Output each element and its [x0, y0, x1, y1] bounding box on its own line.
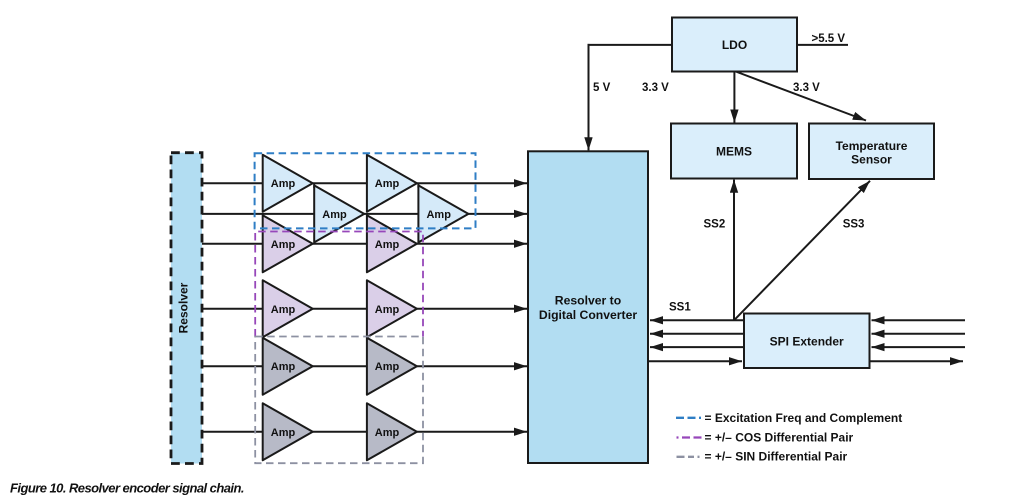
op-amp Amp A8 (purple, row4 col2) [367, 280, 417, 337]
svg-text:3.3 V: 3.3 V [793, 82, 820, 94]
op-amp Amp A5 (purple, row3 col1) [263, 215, 313, 272]
wire: right-side bus line 3 into SPI Extender [872, 346, 966, 348]
svg-text:>5.5 V: >5.5 V [812, 33, 846, 45]
wire: LDO output 5V horizontal to left [588, 44, 673, 46]
svg-text:Amp: Amp [375, 427, 400, 439]
op-amp Amp A12 (gray, row6 col2) [367, 403, 417, 460]
node: >5.5 V label [812, 33, 846, 45]
op-amp Amp A9 (gray, row5 col1) [263, 338, 313, 395]
MEMS block [671, 124, 797, 179]
svg-text:= +/– SIN Differential Pair: = +/– SIN Differential Pair [705, 450, 848, 464]
node: legend COS text [705, 431, 854, 445]
svg-text:SS2: SS2 [704, 219, 726, 231]
node: 3.3 V label (left) [642, 82, 669, 94]
svg-text:Figure 10. Resolver encoder si: Figure 10. Resolver encoder signal chain… [10, 481, 244, 496]
wire: excitation row 2 segments [202, 213, 527, 215]
wire: SS2 vertical from SPI bus up to MEMS [733, 180, 735, 321]
wire: RDC output into SPI Extender [648, 360, 742, 362]
wire: SPI Extender output to the right [870, 360, 964, 362]
Resolver block [171, 153, 202, 464]
wire: SIN row 5 segments [202, 365, 527, 367]
node: SS2 label [704, 219, 726, 231]
node: excitation freq dashed group box (blue) [255, 153, 476, 228]
svg-text:Temperature: Temperature [836, 139, 908, 153]
node: SS1 label [669, 302, 691, 314]
node: legend blue dashed sample [676, 417, 702, 419]
svg-text:SPI Extender: SPI Extender [770, 334, 844, 348]
svg-text:Amp: Amp [375, 239, 400, 251]
wire: SPI bus line 1 (SS1) into RDC [650, 319, 744, 321]
node: legend SIN text [705, 450, 848, 464]
op-amp Amp A11 (gray, row6 col1) [263, 403, 313, 460]
op-amp Amp A3 (blue, row1 col2) [367, 155, 417, 212]
svg-text:LDO: LDO [722, 38, 747, 52]
wire: right-side bus line 1 into SPI Extender [872, 319, 966, 321]
node: legend gray dashed sample [677, 456, 703, 458]
op-amp Amp A7 (purple, row4 col1) [263, 280, 313, 337]
svg-text:Amp: Amp [322, 209, 347, 221]
wire: SPI bus line 3 into RDC [650, 346, 744, 348]
svg-text:SS1: SS1 [669, 302, 691, 314]
SPI Extender block U2 [744, 314, 870, 369]
svg-text:Amp: Amp [271, 239, 296, 251]
svg-text:5 V: 5 V [593, 82, 611, 94]
svg-text:Digital Converter: Digital Converter [539, 308, 637, 322]
node: 3.3 V label (right) [793, 82, 820, 94]
wire: right-side bus line 2 into SPI Extender [872, 333, 966, 335]
svg-text:Amp: Amp [426, 209, 451, 221]
svg-text:Sensor: Sensor [851, 152, 892, 166]
wire: COS row 3 segments [202, 243, 527, 245]
svg-text:= Excitation Freq and Compleme: = Excitation Freq and Complement [705, 411, 903, 425]
svg-text:Amp: Amp [271, 304, 296, 316]
wire: 5V vertical drop into Resolver to Digital Converter [588, 44, 590, 150]
op-amp Amp A10 (gray, row5 col2) [367, 338, 417, 395]
svg-text:Amp: Amp [375, 178, 400, 190]
svg-text:3.3 V: 3.3 V [642, 82, 669, 94]
node: COS differential pair dashed group box (purple) [255, 232, 423, 337]
LDO block [672, 18, 797, 72]
node: figure caption [10, 481, 244, 496]
node: legend purple dashed sample [677, 436, 703, 438]
wire: 3.3V vertical from LDO to MEMS [733, 71, 735, 123]
svg-text:Amp: Amp [271, 361, 296, 373]
wire: tap from row1 down to amp colB [313, 183, 315, 188]
wire: SIN row 6 segments [202, 431, 527, 433]
wire: COS row 4 segments [202, 308, 527, 310]
op-amp Amp A4 (blue, row2 colD) [418, 185, 468, 242]
svg-text:Amp: Amp [271, 178, 296, 190]
op-amp Amp A2 (blue, row2 colB) [314, 185, 364, 242]
svg-text:Resolver to: Resolver to [555, 294, 621, 308]
svg-text:Amp: Amp [271, 427, 296, 439]
node: 5 V label [593, 82, 611, 94]
svg-text:Amp: Amp [375, 361, 400, 373]
wire: SS3 diagonal from SPI bus up to Temperature Sensor [734, 181, 870, 320]
wire: LDO input >5.5V line [797, 44, 848, 46]
svg-text:MEMS: MEMS [716, 145, 752, 159]
wire: tap from row1 down to amp colD [417, 183, 419, 188]
op-amp Amp A6 (purple, row3 col2) [367, 215, 417, 272]
svg-text:SS3: SS3 [843, 219, 865, 231]
Temperature Sensor block [809, 124, 934, 180]
svg-text:= +/– COS Differential Pair: = +/– COS Differential Pair [705, 431, 854, 445]
Resolver to Digital Converter block U1 [528, 151, 648, 463]
node: legend excitation text [705, 411, 903, 425]
wire: 3.3V diagonal from LDO to Temperature Sensor [734, 71, 866, 121]
op-amp Amp A1 (blue, row1 col1) [263, 155, 313, 212]
node: SS3 label [843, 219, 865, 231]
wire: SPI bus line 2 into RDC [650, 333, 744, 335]
svg-text:Resolver: Resolver [177, 282, 191, 333]
svg-text:Amp: Amp [375, 304, 400, 316]
node: SIN differential pair dashed group box (gray) [255, 337, 423, 464]
wire: excitation row 1 segments [202, 182, 527, 184]
